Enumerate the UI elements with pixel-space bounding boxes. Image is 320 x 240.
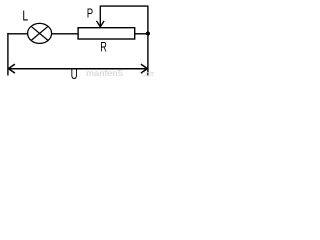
svg-text:L: L: [22, 9, 28, 25]
wire: right vertical side: [147, 6, 149, 75]
lamp L (circle with X cross): [28, 23, 52, 43]
voltage U dimension line with arrowheads both ends: [8, 64, 147, 73]
wire: lamp to resistor: [52, 33, 79, 35]
svg-text:com: com: [142, 68, 154, 78]
svg-text:U: U: [71, 67, 78, 82]
svg-text:P: P: [87, 6, 93, 21]
wire: top-left horizontal from corner to lamp: [7, 33, 27, 35]
resistor R (rectangle): [78, 28, 135, 39]
svg-text:manfen5: manfen5: [86, 68, 123, 78]
wire: bypass top horizontal (wiper to right side): [100, 5, 149, 7]
junction dot: [146, 32, 150, 36]
wire: left vertical side: [7, 33, 9, 76]
svg-text:R: R: [100, 39, 107, 54]
wire: resistor right to junction: [135, 33, 148, 35]
potentiometer wiper arrow (stem + open head): [97, 6, 105, 27]
